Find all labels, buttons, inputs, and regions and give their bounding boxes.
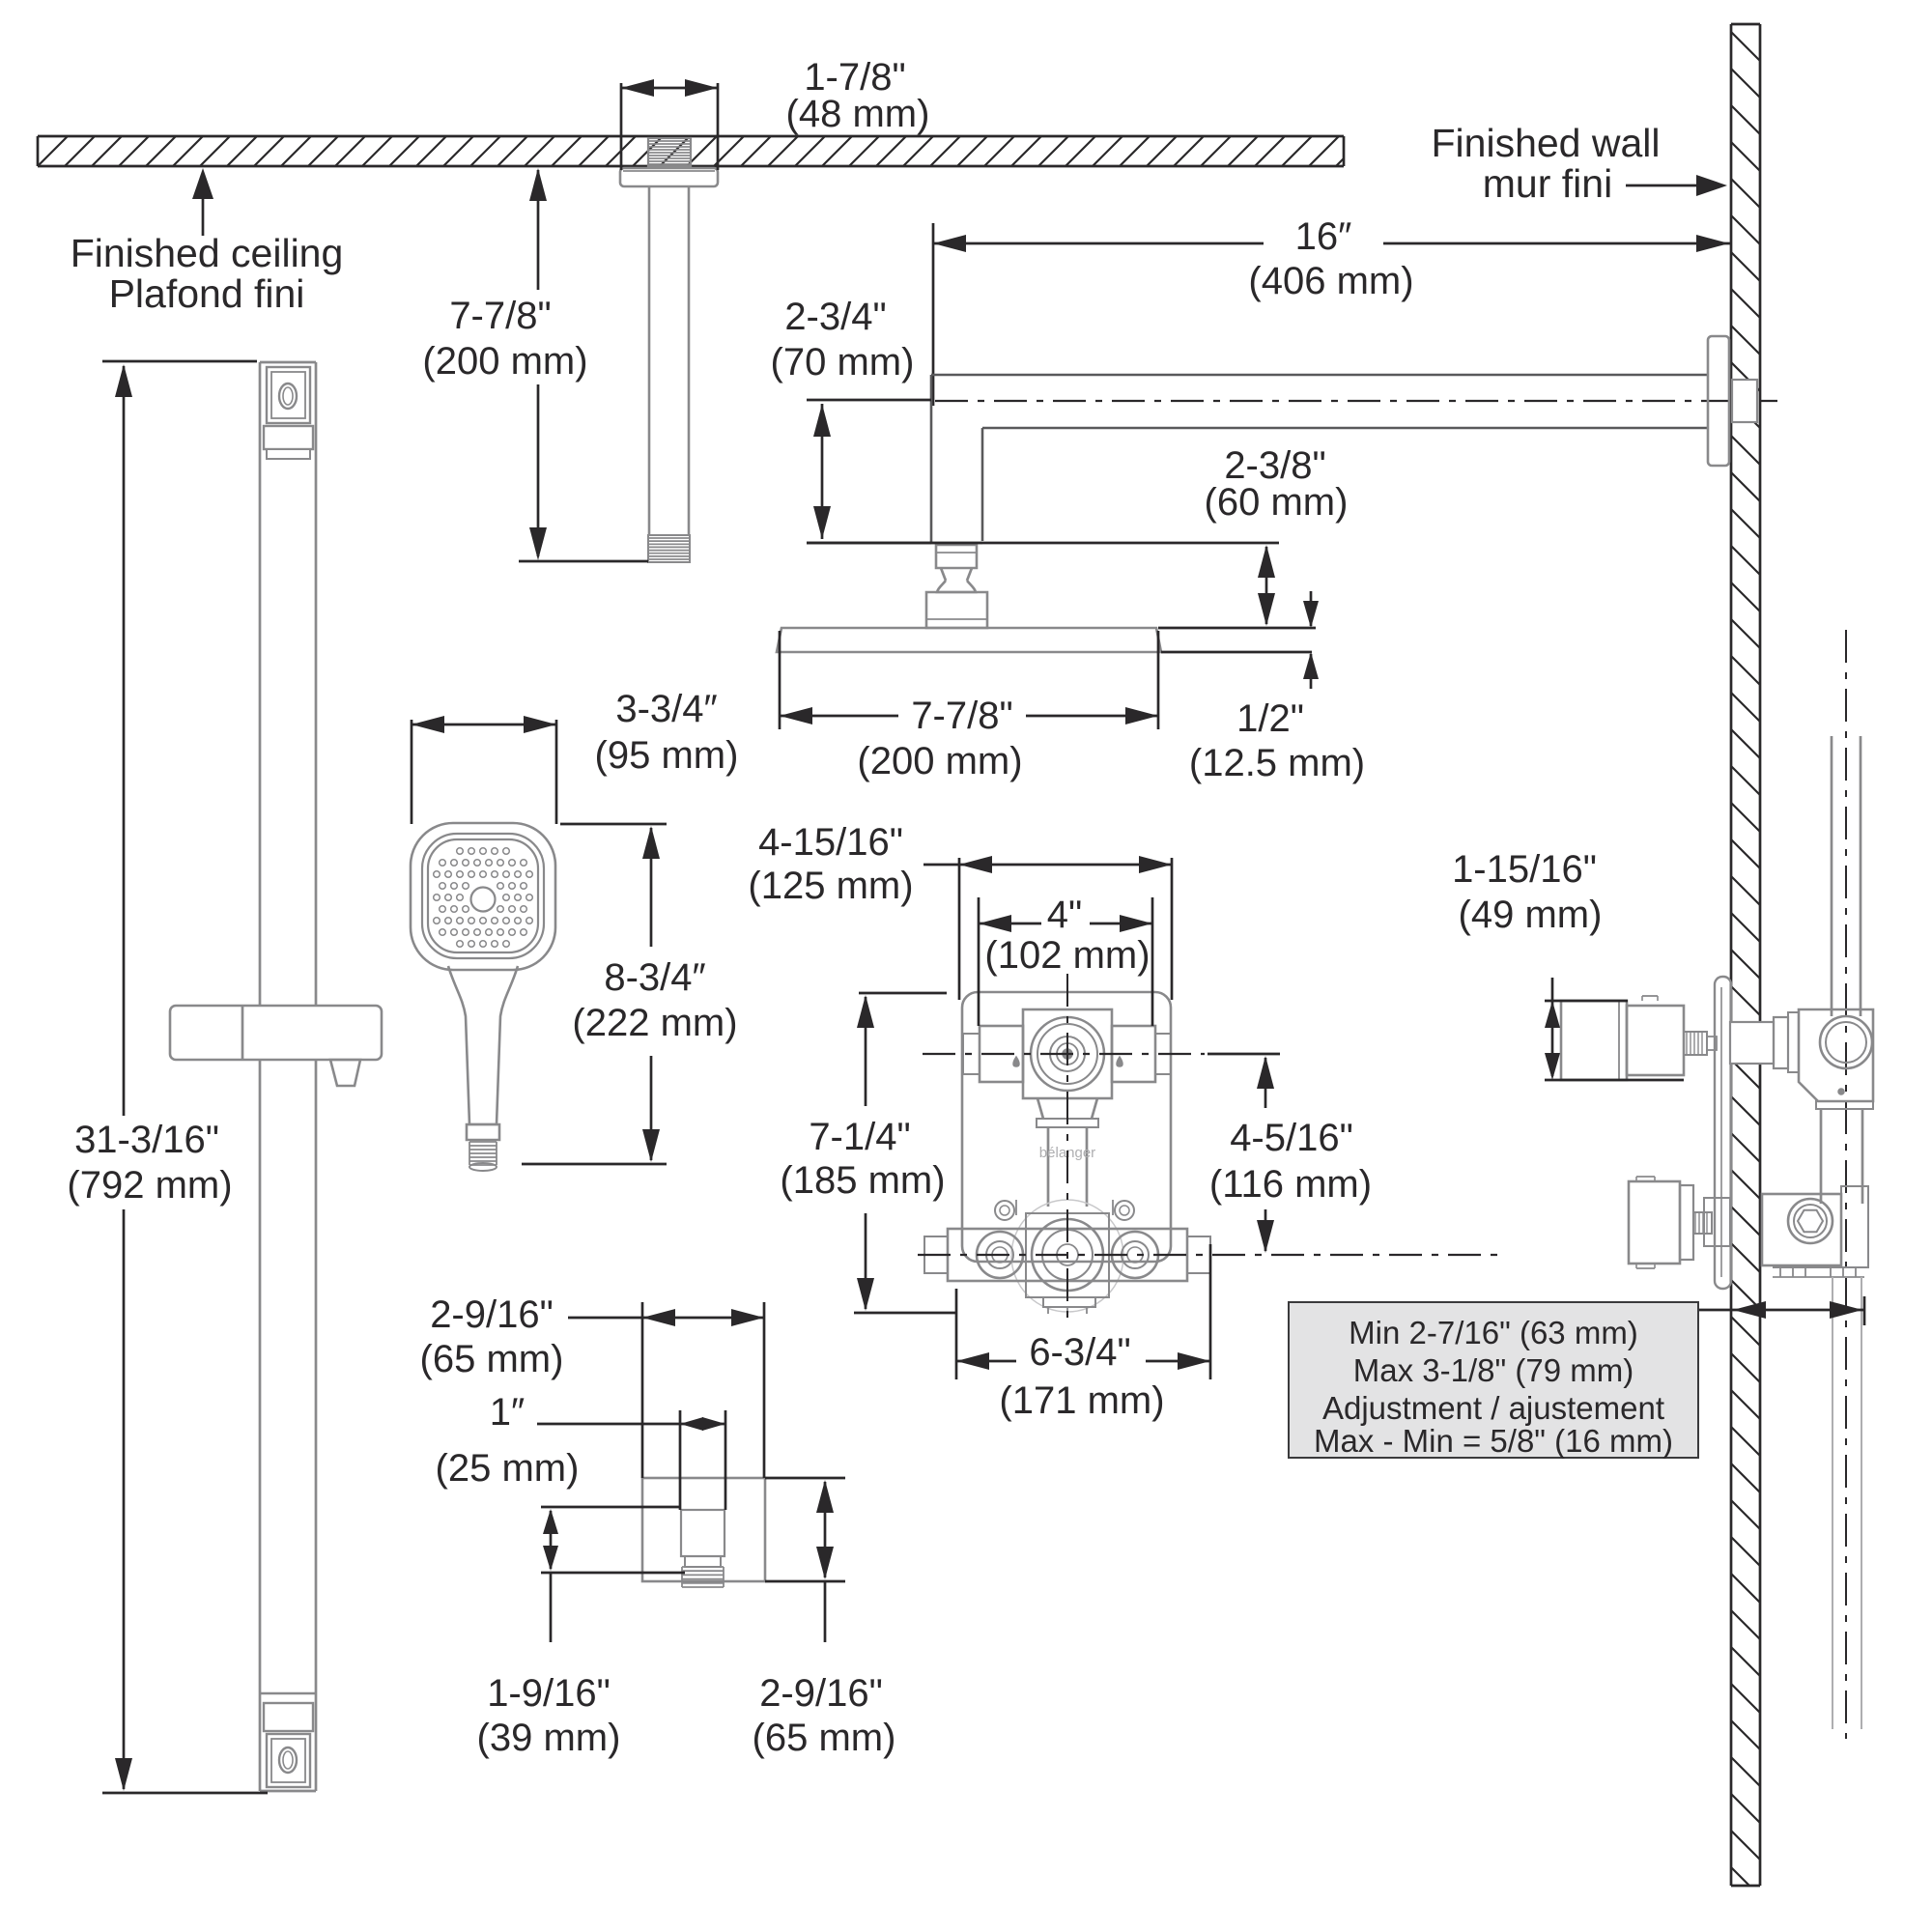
svg-text:2-9/16": 2-9/16" (759, 1672, 883, 1715)
svg-text:Plafond fini: Plafond fini (109, 271, 305, 316)
svg-text:(102 mm): (102 mm) (984, 934, 1150, 977)
svg-text:(25 mm): (25 mm) (436, 1447, 580, 1490)
svg-text:4": 4" (1047, 894, 1082, 936)
svg-text:1-9/16": 1-9/16" (487, 1672, 611, 1715)
svg-text:8-3/4″: 8-3/4″ (604, 956, 705, 999)
svg-text:(125 mm): (125 mm) (748, 865, 913, 907)
svg-text:4-15/16": 4-15/16" (758, 821, 903, 864)
svg-text:1-15/16": 1-15/16" (1452, 848, 1597, 891)
svg-text:Min 2-7/16" (63 mm): Min 2-7/16" (63 mm) (1349, 1315, 1638, 1350)
svg-text:(65 mm): (65 mm) (420, 1338, 564, 1380)
svg-text:1/2": 1/2" (1236, 697, 1304, 740)
svg-text:(171 mm): (171 mm) (999, 1379, 1164, 1422)
svg-text:(792 mm): (792 mm) (67, 1164, 232, 1207)
svg-text:2-9/16": 2-9/16" (430, 1293, 554, 1336)
svg-text:(60 mm): (60 mm) (1205, 481, 1349, 524)
svg-text:(185 mm): (185 mm) (780, 1159, 945, 1202)
svg-text:6-3/4": 6-3/4" (1029, 1331, 1130, 1374)
svg-text:31-3/16": 31-3/16" (74, 1119, 219, 1161)
svg-text:(116 mm): (116 mm) (1209, 1163, 1372, 1206)
svg-text:1″: 1″ (490, 1391, 525, 1434)
svg-text:4-5/16": 4-5/16" (1230, 1117, 1353, 1159)
svg-text:(65 mm): (65 mm) (753, 1717, 896, 1759)
svg-text:Finished wall: Finished wall (1432, 121, 1661, 165)
svg-text:(39 mm): (39 mm) (477, 1717, 621, 1759)
svg-text:7-1/4": 7-1/4" (809, 1116, 910, 1158)
svg-text:(200 mm): (200 mm) (857, 740, 1022, 782)
svg-text:3-3/4″: 3-3/4″ (615, 688, 717, 730)
svg-text:(70 mm): (70 mm) (771, 341, 915, 384)
svg-text:Max 3-1/8" (79 mm): Max 3-1/8" (79 mm) (1353, 1352, 1634, 1388)
svg-text:(406 mm): (406 mm) (1248, 260, 1413, 302)
svg-text:(12.5 mm): (12.5 mm) (1189, 742, 1365, 784)
svg-text:2-3/4": 2-3/4" (784, 296, 886, 338)
svg-text:mur fini: mur fini (1483, 161, 1612, 206)
svg-text:Finished ceiling: Finished ceiling (71, 231, 344, 275)
svg-text:(95 mm): (95 mm) (595, 734, 739, 777)
svg-text:Max - Min = 5/8" (16 mm): Max - Min = 5/8" (16 mm) (1314, 1423, 1673, 1459)
svg-text:(222 mm): (222 mm) (572, 1002, 737, 1044)
svg-text:(48 mm): (48 mm) (786, 93, 930, 135)
svg-text:16″: 16″ (1295, 215, 1352, 258)
svg-text:7-7/8": 7-7/8" (449, 295, 551, 337)
svg-text:Adjustment / ajustement: Adjustment / ajustement (1322, 1390, 1664, 1426)
svg-text:(200 mm): (200 mm) (422, 340, 587, 383)
svg-text:7-7/8": 7-7/8" (911, 695, 1012, 737)
svg-text:(49 mm): (49 mm) (1459, 894, 1603, 936)
